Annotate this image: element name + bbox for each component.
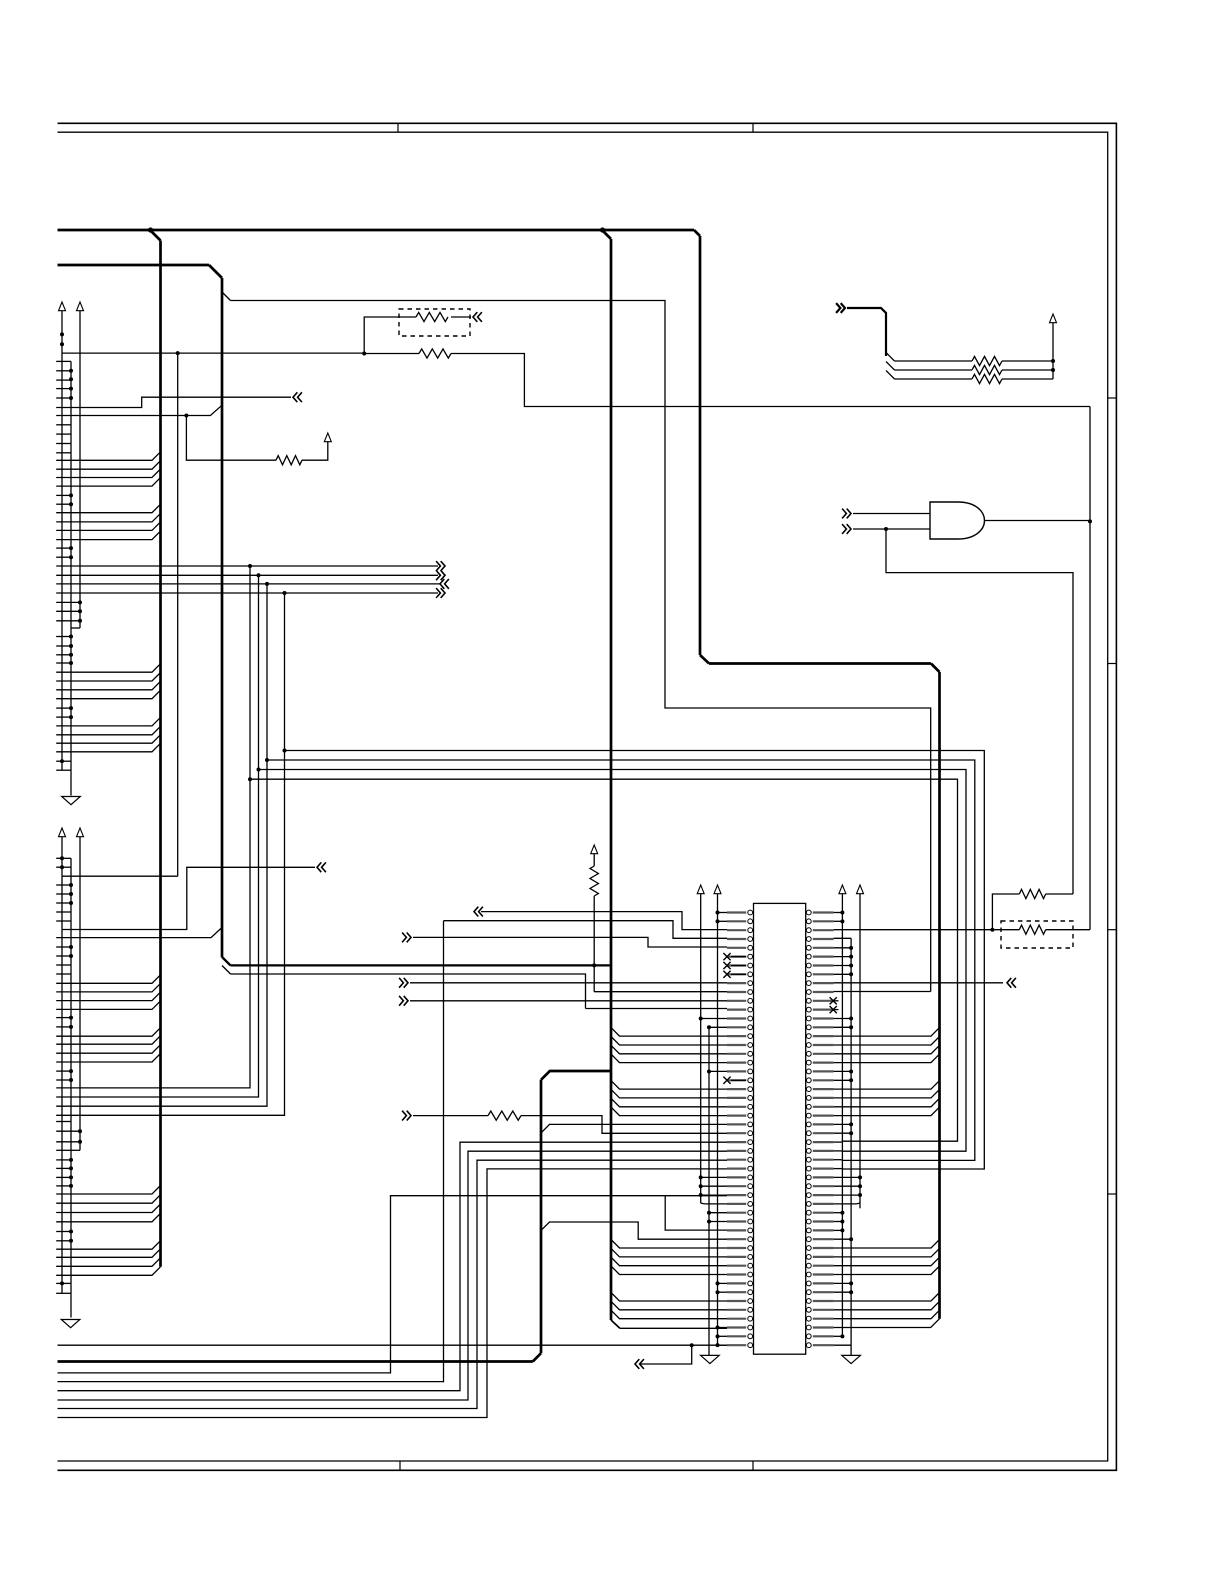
wire fan row 3 — [895, 378, 973, 380]
wire fan right vertical — [1052, 322, 1054, 379]
pin 38 left — [727, 1238, 746, 1240]
resistor RN2 — [972, 365, 1002, 374]
wire pin right — [834, 1185, 860, 1187]
offpage chevron pin9R — [1007, 978, 1016, 988]
bus exit to pin 40 left — [611, 1248, 727, 1257]
pin 24 left — [727, 1114, 746, 1116]
junction rail L — [69, 661, 73, 665]
offpage chevron R1 — [473, 312, 482, 322]
wire pin right — [834, 1194, 860, 1196]
pin 15 right — [813, 1035, 834, 1037]
wire pin right — [834, 1026, 852, 1028]
wire to chevron x633 — [640, 1345, 692, 1364]
wire ladder line with bus entry — [56, 461, 160, 470]
wire pin right — [834, 1229, 843, 1231]
wire connector stub — [56, 955, 71, 957]
junction rail L — [69, 715, 73, 719]
wire vertical x1090 — [1089, 407, 1091, 930]
wire crossover v2 — [56, 575, 258, 1097]
pin 31 left — [727, 1176, 746, 1178]
wire vert x186 to R3 — [186, 416, 276, 461]
wire pin left — [718, 912, 728, 914]
wire R1 left — [364, 317, 416, 354]
wire connector stub — [56, 1231, 71, 1233]
junction r2 pin — [849, 1131, 853, 1135]
pin 19 right — [813, 1070, 834, 1072]
wire fan row 1b — [1002, 360, 1053, 362]
junction crossover mid — [265, 758, 269, 762]
wire pin right — [834, 1123, 852, 1125]
bus exit pin38 left — [541, 1222, 727, 1239]
bus bottom horizontal y1361 — [58, 1360, 533, 1363]
junction r2 pin — [849, 1122, 853, 1126]
bus segment h1 — [58, 229, 695, 232]
bus exit pin25 left — [541, 1124, 727, 1133]
wire ladder line with bus entry — [56, 1045, 160, 1054]
wire thick from chevron — [847, 308, 886, 356]
junction rail L — [69, 635, 73, 639]
wire pin12 left — [586, 1008, 728, 1010]
pin 1 left — [727, 911, 746, 913]
junction r1 pin — [840, 919, 844, 923]
junction rail L — [69, 883, 73, 887]
wire pin right — [834, 920, 843, 922]
junction l2 pin — [707, 1069, 711, 1073]
IC U2 body — [754, 903, 806, 1354]
pin 15 left — [727, 1035, 746, 1037]
pin 3 left — [727, 929, 746, 931]
junction rail L — [69, 396, 73, 400]
wire connector stub — [56, 452, 71, 454]
junction l1 pin — [699, 1184, 703, 1188]
bus entry pin 15 right — [834, 1028, 940, 1037]
wire connector stub — [56, 1282, 71, 1284]
junction l1 pin — [699, 1193, 703, 1197]
wire connector stub — [56, 433, 71, 435]
wire R1 row — [451, 316, 471, 318]
pin 39 right — [813, 1247, 834, 1249]
junction r2 pin — [849, 1078, 853, 1082]
junction rail L — [69, 1239, 73, 1243]
pin 24 right — [813, 1114, 834, 1116]
resistor RN1 — [972, 356, 1002, 365]
pin 2 right — [813, 920, 834, 922]
pin 10 left — [727, 991, 746, 993]
wire connector stub — [56, 857, 71, 859]
pin 16 right — [813, 1044, 834, 1046]
bus 2 exit diagonal thick — [222, 957, 231, 965]
junction rail B — [78, 600, 82, 604]
pin 46 right — [813, 1309, 834, 1311]
junction r3 pin — [858, 1193, 862, 1197]
wire bus2 to bus3 y965 — [231, 964, 612, 966]
wire connector stub — [56, 388, 71, 390]
bus entry pin 40 right — [834, 1248, 940, 1257]
rail r2 vertical — [850, 938, 852, 1355]
wire connector stub — [56, 911, 71, 913]
pin 1 right — [813, 911, 834, 913]
offpage chevron pin3L — [474, 907, 483, 917]
pin 20 left — [727, 1079, 746, 1081]
bus entry pin 42 right — [834, 1266, 940, 1275]
pin 33 right — [813, 1194, 834, 1196]
wire riser pin27 — [58, 1142, 728, 1391]
pin 25 right — [813, 1123, 834, 1125]
pin 30 right — [813, 1167, 834, 1169]
rail l3 vertical — [717, 894, 719, 1346]
fan diagonal 3 — [886, 371, 895, 380]
bus 1 vertical — [159, 241, 162, 1267]
pin 21 left — [727, 1088, 746, 1090]
rail l2 vertical — [708, 1027, 710, 1356]
wire connector stub — [56, 964, 71, 966]
bus entry pin 16 right — [834, 1037, 940, 1046]
wire pin5 left — [413, 937, 727, 947]
wire nc stub — [731, 973, 746, 975]
wire pin right — [834, 1335, 843, 1337]
power arrow R7 — [591, 845, 598, 854]
pin 2 left — [727, 920, 746, 922]
pin 50 right — [813, 1344, 834, 1346]
border tick bottom 1 — [399, 1461, 401, 1470]
wire connector stub — [56, 1070, 71, 1072]
pin 11 right — [813, 1000, 834, 1002]
wire pin left — [718, 1335, 728, 1337]
pin 28 left — [727, 1150, 746, 1152]
wire riser pin29 — [58, 1160, 728, 1408]
bus branch diagonal to bus1 — [150, 230, 161, 241]
pin 36 right — [813, 1220, 834, 1222]
offpage chevron out 1 — [436, 561, 445, 571]
junction rail A — [60, 759, 64, 763]
bus entry pin 24 right — [834, 1107, 940, 1116]
rail A vertical lower — [61, 837, 63, 1294]
wire y876 to rail A — [62, 875, 178, 877]
wire connector stub — [56, 1121, 71, 1123]
junction rail A — [60, 332, 64, 336]
wire connector stub — [56, 1167, 71, 1169]
wire connector stub — [56, 547, 71, 549]
wire pin left — [709, 1070, 727, 1072]
junction r3 pin — [858, 1175, 862, 1179]
power arrow rail l1 — [697, 885, 704, 894]
wire pin right — [834, 1221, 843, 1223]
pin 29 right — [813, 1159, 834, 1161]
border tick top 1 — [397, 123, 399, 132]
wire net A y750 — [285, 751, 985, 1170]
pin 5 left — [727, 947, 746, 949]
wire riser pin30 — [58, 1169, 728, 1418]
bus 3 terminal diagonal — [611, 1320, 620, 1328]
pin 6 right — [813, 955, 834, 957]
pin 32 left — [727, 1185, 746, 1187]
wire connector stub — [56, 884, 71, 886]
wire ladder line with bus entry — [56, 513, 160, 522]
power arrow R3 — [324, 433, 331, 442]
junction rail L — [69, 954, 73, 958]
junction rail L — [69, 493, 73, 497]
pin 5 right — [813, 947, 834, 949]
wire pin right ext — [834, 1150, 842, 1152]
no-connect X pin 7 left — [723, 962, 730, 969]
bus 2 vertical x222 — [221, 278, 224, 957]
junction rail B — [78, 609, 82, 613]
junction r2 pin — [849, 972, 853, 976]
wire connector stub — [56, 760, 71, 762]
junction crossover top — [257, 573, 261, 577]
pin 23 right — [813, 1106, 834, 1108]
wire AND input A — [853, 513, 930, 515]
bus exit to pin 15 left — [611, 1028, 727, 1037]
pin 26 left — [727, 1132, 746, 1134]
pin 50 left — [727, 1344, 746, 1346]
wire connector stub — [56, 1185, 71, 1187]
wire connector stub — [56, 920, 71, 922]
wire pin right — [834, 1282, 852, 1284]
pin 14 left — [727, 1026, 746, 1028]
pin 28 right — [813, 1150, 834, 1152]
wire connector stub — [56, 503, 71, 505]
wire net B y760 — [267, 760, 975, 1160]
wire connector stub — [56, 1159, 71, 1161]
pin 34 right — [813, 1203, 834, 1205]
wire riser x443 — [443, 921, 445, 1382]
junction r2 pin — [849, 1290, 853, 1294]
wire connector stub — [56, 1292, 71, 1294]
pin 49 left — [727, 1335, 746, 1337]
junction l2 pin — [707, 1025, 711, 1029]
wire R6 row left — [413, 1115, 488, 1117]
junction rail L — [69, 369, 73, 373]
wire ladder line with bus entry — [56, 1267, 160, 1276]
junction rail L — [69, 377, 73, 381]
wire connector stub — [56, 1130, 80, 1132]
resistor R3 — [276, 456, 302, 465]
pin 38 right — [813, 1238, 834, 1240]
wire pin right — [834, 1070, 852, 1072]
wire connector stub — [56, 370, 71, 372]
junction rail L — [69, 901, 73, 905]
pin 34 left — [727, 1203, 746, 1205]
wire net R2 row — [62, 352, 364, 354]
junction rail A — [60, 865, 64, 869]
wire connector stub — [56, 443, 71, 445]
pin 16 left — [727, 1044, 746, 1046]
wire ladder line with bus entry — [56, 1241, 160, 1250]
junction crossover mid — [257, 768, 261, 772]
junction l2 pin — [707, 1211, 711, 1215]
bus exit to pin 18 left — [611, 1054, 727, 1063]
junction x186 y415 — [184, 414, 188, 418]
wire pin left — [718, 1291, 728, 1293]
rail r3 end jog — [856, 1202, 860, 1205]
bus 5 vertical x940 — [938, 672, 941, 1319]
wire fan row 2b — [1002, 369, 1053, 371]
wire fan row 1 — [895, 360, 973, 362]
wire ladder line with bus entry — [56, 983, 160, 992]
pin 36 left — [727, 1220, 746, 1222]
junction l1 pin — [699, 1016, 703, 1020]
wire ladder line with bus entry — [56, 726, 160, 735]
pin 49 right — [813, 1335, 834, 1337]
pin 29 left — [727, 1159, 746, 1161]
wire y300 long — [231, 301, 931, 992]
rail A vertical upper — [61, 311, 63, 771]
bus h1 corner diagonal — [694, 230, 700, 236]
wire R4 left — [992, 894, 1019, 930]
junction pin50 jog — [690, 1343, 694, 1347]
pin 39 left — [727, 1247, 746, 1249]
wire connector stub — [56, 1079, 71, 1081]
junction vert177 start — [176, 351, 180, 355]
offpage chevron x633 — [635, 1359, 644, 1369]
junction rail L — [69, 1016, 73, 1020]
pin 21 right — [813, 1088, 834, 1090]
wire connector stub — [56, 769, 71, 771]
junction r1 pin — [840, 911, 844, 915]
wire connector stub — [56, 397, 71, 399]
junction rail L — [69, 1184, 73, 1188]
wire fan row 3b — [1002, 378, 1053, 380]
wire pin4 left — [444, 921, 728, 939]
junction rail L — [69, 555, 73, 559]
wire pin9 right — [834, 982, 1003, 984]
wire connector stub — [56, 1026, 71, 1028]
bus exit to pin 39 left — [611, 1240, 727, 1249]
junction crossover top — [283, 591, 287, 595]
border inner frame — [58, 132, 1108, 1461]
wire connector stub — [56, 494, 71, 496]
junction R1 bottom — [362, 352, 366, 356]
junction l3 pin — [716, 919, 720, 923]
power arrow fan — [1050, 314, 1057, 323]
wire ladder y937 bus2 entry — [56, 928, 222, 938]
junction r2 pin — [849, 1281, 853, 1285]
junction r2 pin — [849, 963, 853, 967]
dashed box around R5 — [1001, 921, 1073, 948]
wire connector stub — [56, 424, 71, 426]
power arrow rail l3 — [714, 885, 721, 894]
bus entry pin 17 right — [834, 1045, 940, 1054]
wire connector stub — [56, 1017, 71, 1019]
offpage chevron thick in — [836, 303, 845, 313]
rail B bracket corner — [71, 627, 80, 629]
bus exit to pin 45 left — [611, 1293, 727, 1302]
wire chevron line 1 — [56, 565, 438, 567]
bus entry pin 23 right — [834, 1098, 940, 1107]
resistor R5 — [1019, 925, 1045, 934]
bus exit to pin 16 left — [611, 1037, 727, 1046]
pin 10 right — [813, 991, 834, 993]
pin 4 right — [813, 938, 834, 940]
junction rail L — [69, 1230, 73, 1234]
wire crossover v4 — [56, 593, 284, 1115]
wire pin left — [718, 1327, 728, 1329]
pin 35 right — [813, 1212, 834, 1214]
bus 2 exit diagonal thin — [222, 966, 231, 975]
wire ladder y415 bus2 entry — [56, 405, 222, 415]
wire ladder line with bus entry — [56, 690, 160, 699]
pin 45 right — [813, 1300, 834, 1302]
wire pin right — [834, 956, 852, 958]
wire ladder line with bus entry — [56, 504, 160, 513]
wire ladder line with bus entry — [56, 478, 160, 487]
wire pin right — [834, 1176, 860, 1178]
wire ladder line with bus entry — [56, 1195, 160, 1204]
pin 23 left — [727, 1106, 746, 1108]
junction fan 2 — [1051, 368, 1055, 372]
wire AND B branch — [886, 529, 1073, 894]
pin 19 left — [727, 1070, 746, 1072]
wire pin right — [834, 973, 852, 975]
pin 7 right — [813, 964, 834, 966]
pin 26 right — [813, 1132, 834, 1134]
wire ladder line with bus entry — [56, 469, 160, 478]
wire Z pin37 — [665, 1196, 727, 1230]
junction fan 1 — [1051, 359, 1055, 363]
wire connector stub — [56, 1141, 80, 1143]
wire connector stub — [56, 556, 71, 558]
junction rail L — [69, 644, 73, 648]
bus branch diagonal to bus3 — [602, 230, 611, 239]
wire chevron line 3 — [56, 583, 440, 585]
pin 27 right — [813, 1141, 834, 1143]
wire nc stub — [731, 956, 746, 958]
wire pin10 right — [834, 991, 931, 993]
bus entry pin 22 right — [834, 1089, 940, 1098]
no-connect X pin 8 left — [723, 971, 730, 978]
wire AND output — [985, 520, 1091, 522]
junction r2 pin — [849, 946, 853, 950]
wire AND input B — [853, 528, 930, 530]
wire pin right — [834, 1291, 852, 1293]
bus 6 corner diagonal bottom — [533, 1353, 541, 1361]
wire pin right ext — [834, 1159, 842, 1161]
wire ladder line with bus entry — [56, 717, 160, 726]
offpage chevron x322 — [317, 862, 326, 872]
pin 3 right — [813, 929, 834, 931]
wire connector stub — [56, 973, 71, 975]
wire pin right ext — [834, 1168, 842, 1170]
pin 37 left — [727, 1229, 746, 1231]
wire R2 to corner — [451, 354, 1090, 407]
bus exit to pin 21 left — [611, 1081, 727, 1090]
bus entry pin 18 right — [834, 1054, 940, 1063]
pin 42 right — [813, 1273, 834, 1275]
bus exit to pin 42 left — [611, 1266, 727, 1275]
wire pin left — [701, 1185, 727, 1187]
pin 40 right — [813, 1256, 834, 1258]
pin 33 left — [727, 1194, 746, 1196]
junction crossover mid — [283, 749, 287, 753]
wire pin left — [701, 1176, 727, 1178]
rail l1 vertical — [700, 894, 702, 1204]
pin 47 right — [813, 1318, 834, 1320]
resistor R6 — [488, 1111, 521, 1120]
power arrow rail r1 — [839, 885, 846, 894]
bus entry pin 45 right — [834, 1293, 940, 1302]
wire ladder line with bus entry — [56, 1186, 160, 1195]
resistor R1 — [416, 312, 448, 321]
wire ladder line with bus entry — [56, 1001, 160, 1010]
pin 45 left — [727, 1300, 746, 1302]
wire pin right — [834, 1132, 852, 1134]
wire connector stub — [56, 610, 80, 612]
pin 31 right — [813, 1176, 834, 1178]
junction R7 y965 — [592, 963, 596, 967]
bus exit to pin 23 left — [611, 1098, 727, 1107]
wire ladder line with bus entry — [56, 992, 160, 1001]
